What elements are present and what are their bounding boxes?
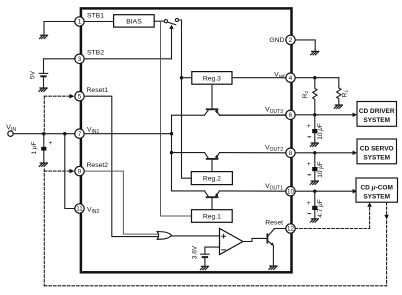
svg-text:CD DRIVER: CD DRIVER [359,108,395,115]
svg-text:Reset: Reset [265,220,283,227]
wire: Q2 to pin8 VOUT2 [220,152,287,154]
svg-text:Reset2: Reset2 [87,162,109,169]
node: VOUT3/R2 junction [313,113,316,116]
switch S1 (standby) [164,20,167,23]
wire: BIAS tap down to Reg.1 [161,22,192,217]
pin 9 [75,166,84,175]
pin 11 [75,204,84,213]
node: VIN rail at VIN1 [170,132,173,135]
ground (below C1) [39,163,47,166]
input terminal VIN [8,131,13,136]
transistor Q4 (reset output) [266,234,268,242]
svg-text:+: + [307,123,311,130]
svg-text:CD SERVO: CD SERVO [360,145,394,152]
pin 7 [75,129,84,138]
pin 10 [286,187,295,196]
svg-text:8: 8 [289,150,293,157]
transistor Q3 (VOUT1 pass) [207,196,218,198]
pin 4 [286,73,295,82]
svg-text:Reg.3: Reg.3 [203,75,221,82]
pin 3 [75,54,84,63]
capacitor C3 10uF [312,167,317,171]
wire: pin10 VOUT1 to CD uCOM SYSTEM [295,190,353,192]
transistor Q1 (VOUT3 pass) [207,108,218,110]
ground (below 5V battery) [39,88,47,91]
resistor R1 [337,78,341,105]
dashed wire into pin9 Reset2 [44,170,69,172]
wire: comparator minus input to 3.6V reference [205,247,220,254]
svg-text:+: + [49,140,53,147]
svg-text:Reg.1: Reg.1 [203,213,221,220]
text CD DRIVER SYSTEM [359,108,395,201]
dashed wire from uCOM down to bottom rail with arrow [386,202,388,285]
wire: Reg.3 to pin4 Vref [232,77,286,79]
dashed wire up into uCOM box with arrow [369,207,371,229]
svg-text:3.6V: 3.6V [192,245,199,259]
svg-text:SYSTEM: SYSTEM [363,193,390,200]
svg-text:4.7 μF: 4.7 μF [317,199,324,217]
svg-text:+: + [307,161,311,168]
wire: switch right contact down to regulators [179,20,192,178]
svg-text:3: 3 [78,56,82,63]
svg-text:+: + [307,200,311,207]
svg-text:12: 12 [287,226,294,233]
svg-text:4: 4 [289,75,293,82]
svg-text:CD μ-COM: CD μ-COM [360,184,392,191]
wire: pin4 Vref to R2/R1 [295,77,339,79]
wire: pin2 GND to external ground [295,40,315,51]
pin 2 [286,35,295,44]
wire: Q4 collector to pin12 Reset [274,228,286,231]
svg-text:Reset1: Reset1 [87,87,109,94]
wire: VIN1 from pin7 [85,133,172,135]
ground (below C4) [310,219,318,222]
ground (Q4 emitter) [269,266,277,269]
wire: VOUT3 down to capacitor C2 [314,115,316,129]
svg-text:5V: 5V [30,70,37,79]
box CD DRIVER SYSTEM [357,102,397,127]
svg-text:SYSTEM: SYSTEM [363,154,390,161]
block Reg.1 [192,210,233,223]
pin 6 [286,110,295,119]
gate G1 (reset OR) [157,232,171,240]
svg-text:6: 6 [289,112,293,119]
pin circles [75,17,295,233]
capacitor C1 1uF (electrolytic) [41,147,46,151]
svg-text:10 μF: 10 μF [317,123,324,140]
node: VIN rail branch to Q2 [170,151,173,154]
wire: rail corner to Q3 [172,190,205,192]
wire: BIAS to switch [154,20,164,22]
ground (below 3.6V battery) [200,266,208,269]
wire: junction down to capacitor C1 [43,134,45,147]
wire: Q2 base to Reg.2 [211,160,213,172]
block texts [126,19,221,221]
wire: VIN rail vertical [171,115,173,191]
svg-text:1 μF: 1 μF [31,142,38,155]
ground (below R1) [334,105,342,108]
wire: STB2 from pin3 to switch control [85,58,172,60]
node: Vref/R2 junction [313,76,316,79]
box CD uCOM SYSTEM [356,178,398,202]
node: VOUT2/C3 junction [313,151,316,154]
dashed wire into pin5 Reset1 [44,95,69,97]
node: Reg.3 input junction [180,76,183,79]
wire: rail to Q2 [172,152,205,154]
pin 8 [286,148,295,157]
ground (external, STB1) [40,35,48,38]
svg-text:STB1: STB1 [87,12,104,19]
wire: VOUT2 down to capacitor C3 [314,153,316,167]
ground (below C2) [310,143,318,146]
svg-text:2: 2 [289,37,293,44]
wire: pin1 STB1 to external ground [44,22,75,35]
svg-text:GND: GND [269,37,284,44]
node: VIN to VIN2 branch [63,132,66,135]
battery 3.6V reference [201,253,209,255]
svg-text:7: 7 [78,131,82,138]
ground (GND pin) [311,51,319,54]
wire: Q3 to pin10 VOUT1 [220,190,287,192]
wire: pin6 VOUT3 to CD DRIVER SYSTEM [295,114,353,116]
wire: VIN to pin7 [13,133,75,135]
svg-text:9: 9 [78,168,82,175]
block Reg.3 [192,72,232,85]
node: VIN/C1 junction [42,132,45,135]
wire: pin8 VOUT2 to CD SERVO SYSTEM [295,152,353,154]
resistor R2 [313,78,317,115]
dashed wire: bottom reset rail [44,285,386,287]
wire: Reset2 from pin9 to gate [85,171,159,234]
svg-text:STB2: STB2 [87,50,104,57]
wire: pin3 STB2 to 5V battery [44,59,76,73]
svg-text:BIAS: BIAS [126,19,142,26]
pin 1 [75,17,84,26]
svg-text:5: 5 [78,93,82,100]
svg-text:SYSTEM: SYSTEM [363,117,390,124]
battery 5V [39,72,47,74]
wire: Q3 base to Reg.1 [211,198,213,210]
svg-text:11: 11 [76,206,83,213]
wire: VOUT3 line (Q1 collector to VIN rail, emitter to pin6) [172,114,287,116]
wire: Q4 emitter to ground [272,245,274,265]
wire: gate output to comparator [171,235,219,237]
dashed reset net: vertical rail on left [43,96,45,132]
svg-text:Reg.2: Reg.2 [203,176,221,183]
block Reg.2 [191,172,232,185]
node: VOUT1/C4 junction [313,190,316,193]
wire: VIN branch down to pin11 VIN2 [65,134,75,209]
pin 5 [75,92,84,101]
wire: comparator output to Q4 base [243,238,267,241]
wire: pin1 to BIAS [85,21,114,23]
wire: VOUT1 down to capacitor C4 [314,191,316,205]
box CD SERVO SYSTEM [357,139,397,164]
wire: Reset1 from pin5 to gate [85,96,159,236]
svg-text:10: 10 [287,188,294,195]
wire: junction to Reg.3 [182,77,192,79]
capacitor C4 4.7uF [312,206,317,210]
dashed wire: pin12 Reset to uCOM [295,228,370,230]
ground (below C3) [310,181,318,184]
transistor Q2 (VOUT2 pass) [207,158,218,160]
block BIAS [114,15,155,27]
svg-text:10 μF: 10 μF [317,161,324,178]
capacitor C2 10uF [312,129,317,133]
IC package outline U1 [81,8,292,272]
wire: switch control from STB2 with arrow [171,29,173,59]
wire: Reg.3 to Q1 base [211,84,213,108]
svg-text:1: 1 [78,19,82,26]
op-amp U2 (reset comparator) [220,228,243,254]
pin 12 [286,224,295,233]
